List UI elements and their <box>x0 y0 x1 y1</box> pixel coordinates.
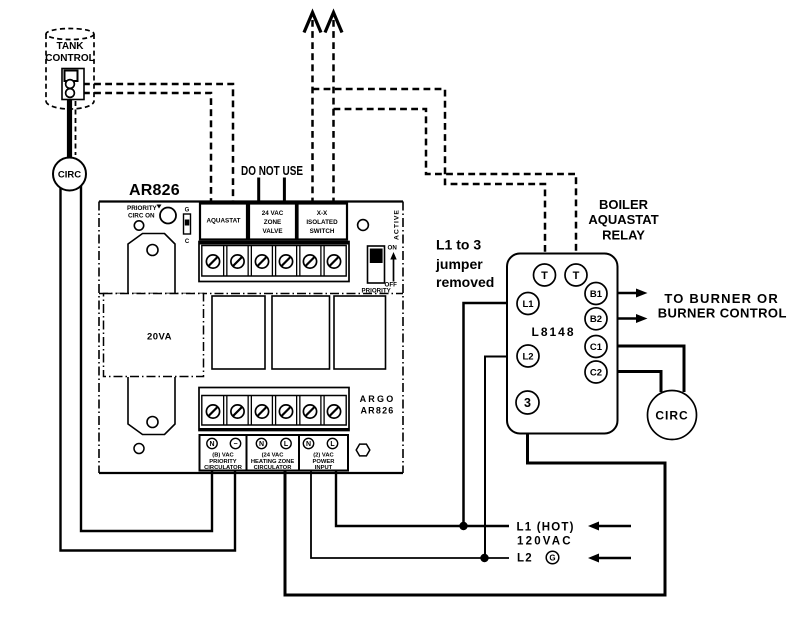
svg-text:L1: L1 <box>522 299 534 310</box>
svg-text:L: L <box>284 441 289 448</box>
svg-text:(2) VAC: (2) VAC <box>313 453 334 459</box>
svg-text:ISOLATED: ISOLATED <box>306 219 338 226</box>
svg-text:(24 VAC: (24 VAC <box>262 453 285 459</box>
svg-text:N: N <box>209 441 214 448</box>
svg-text:jumper: jumper <box>435 256 483 272</box>
svg-text:N: N <box>259 441 264 448</box>
svg-text:CONTROL: CONTROL <box>45 53 94 64</box>
svg-text:AQUASTAT: AQUASTAT <box>206 218 240 225</box>
svg-text:−: − <box>233 441 237 448</box>
svg-text:DO NOT USE: DO NOT USE <box>241 163 303 178</box>
svg-text:PRIORITY: PRIORITY <box>127 205 158 212</box>
svg-text:CIRC: CIRC <box>58 170 81 181</box>
svg-text:C2: C2 <box>590 368 602 379</box>
svg-text:BOILER: BOILER <box>599 197 649 212</box>
svg-text:HEATING ZONE: HEATING ZONE <box>251 459 295 465</box>
svg-text:C1: C1 <box>590 342 603 353</box>
svg-text:3: 3 <box>524 396 531 410</box>
svg-text:T: T <box>541 270 548 282</box>
svg-text:L8148: L8148 <box>532 325 576 339</box>
svg-text:ACTIVE: ACTIVE <box>394 209 401 240</box>
svg-text:BURNER CONTROL: BURNER CONTROL <box>658 306 787 321</box>
svg-text:C: C <box>185 239 190 245</box>
svg-text:L2: L2 <box>517 553 533 565</box>
svg-text:SWITCH: SWITCH <box>310 228 335 235</box>
svg-text:removed: removed <box>436 274 494 290</box>
svg-text:AR826: AR826 <box>129 182 180 199</box>
svg-text:PRIORITY: PRIORITY <box>362 288 392 295</box>
svg-text:ARGO: ARGO <box>360 394 396 404</box>
svg-text:TANK: TANK <box>56 41 84 52</box>
svg-text:B1: B1 <box>590 289 603 300</box>
svg-text:L1 to 3: L1 to 3 <box>436 237 481 253</box>
svg-text:TO BURNER OR: TO BURNER OR <box>664 291 779 306</box>
svg-text:T: T <box>573 270 580 282</box>
svg-text:G: G <box>185 208 190 214</box>
svg-text:N: N <box>306 441 311 448</box>
svg-text:L2: L2 <box>522 352 533 363</box>
svg-text:INPUT: INPUT <box>315 465 333 471</box>
svg-text:CIRCULATOR: CIRCULATOR <box>204 465 243 471</box>
svg-text:VALVE: VALVE <box>262 228 282 235</box>
svg-text:AR826: AR826 <box>360 406 394 416</box>
svg-text:24 VAC: 24 VAC <box>262 210 284 217</box>
svg-text:B2: B2 <box>590 314 602 325</box>
svg-text:AQUASTAT: AQUASTAT <box>588 212 658 227</box>
svg-text:L1 (HOT): L1 (HOT) <box>517 522 575 534</box>
svg-text:L: L <box>330 441 335 448</box>
svg-text:PRIORITY: PRIORITY <box>209 459 237 465</box>
svg-text:20VA: 20VA <box>147 332 172 343</box>
svg-text:G: G <box>549 554 555 563</box>
svg-text:ON: ON <box>388 245 398 252</box>
svg-text:ZONE: ZONE <box>264 219 282 226</box>
svg-text:CIRCULATOR: CIRCULATOR <box>254 465 293 471</box>
svg-text:RELAY: RELAY <box>602 228 645 243</box>
svg-text:POWER: POWER <box>313 459 336 465</box>
svg-text:X-X: X-X <box>317 210 328 217</box>
svg-text:CIRC ON: CIRC ON <box>128 213 155 220</box>
svg-text:120VAC: 120VAC <box>517 536 573 548</box>
svg-text:CIRC: CIRC <box>655 409 688 423</box>
svg-text:(B) VAC: (B) VAC <box>212 453 234 459</box>
